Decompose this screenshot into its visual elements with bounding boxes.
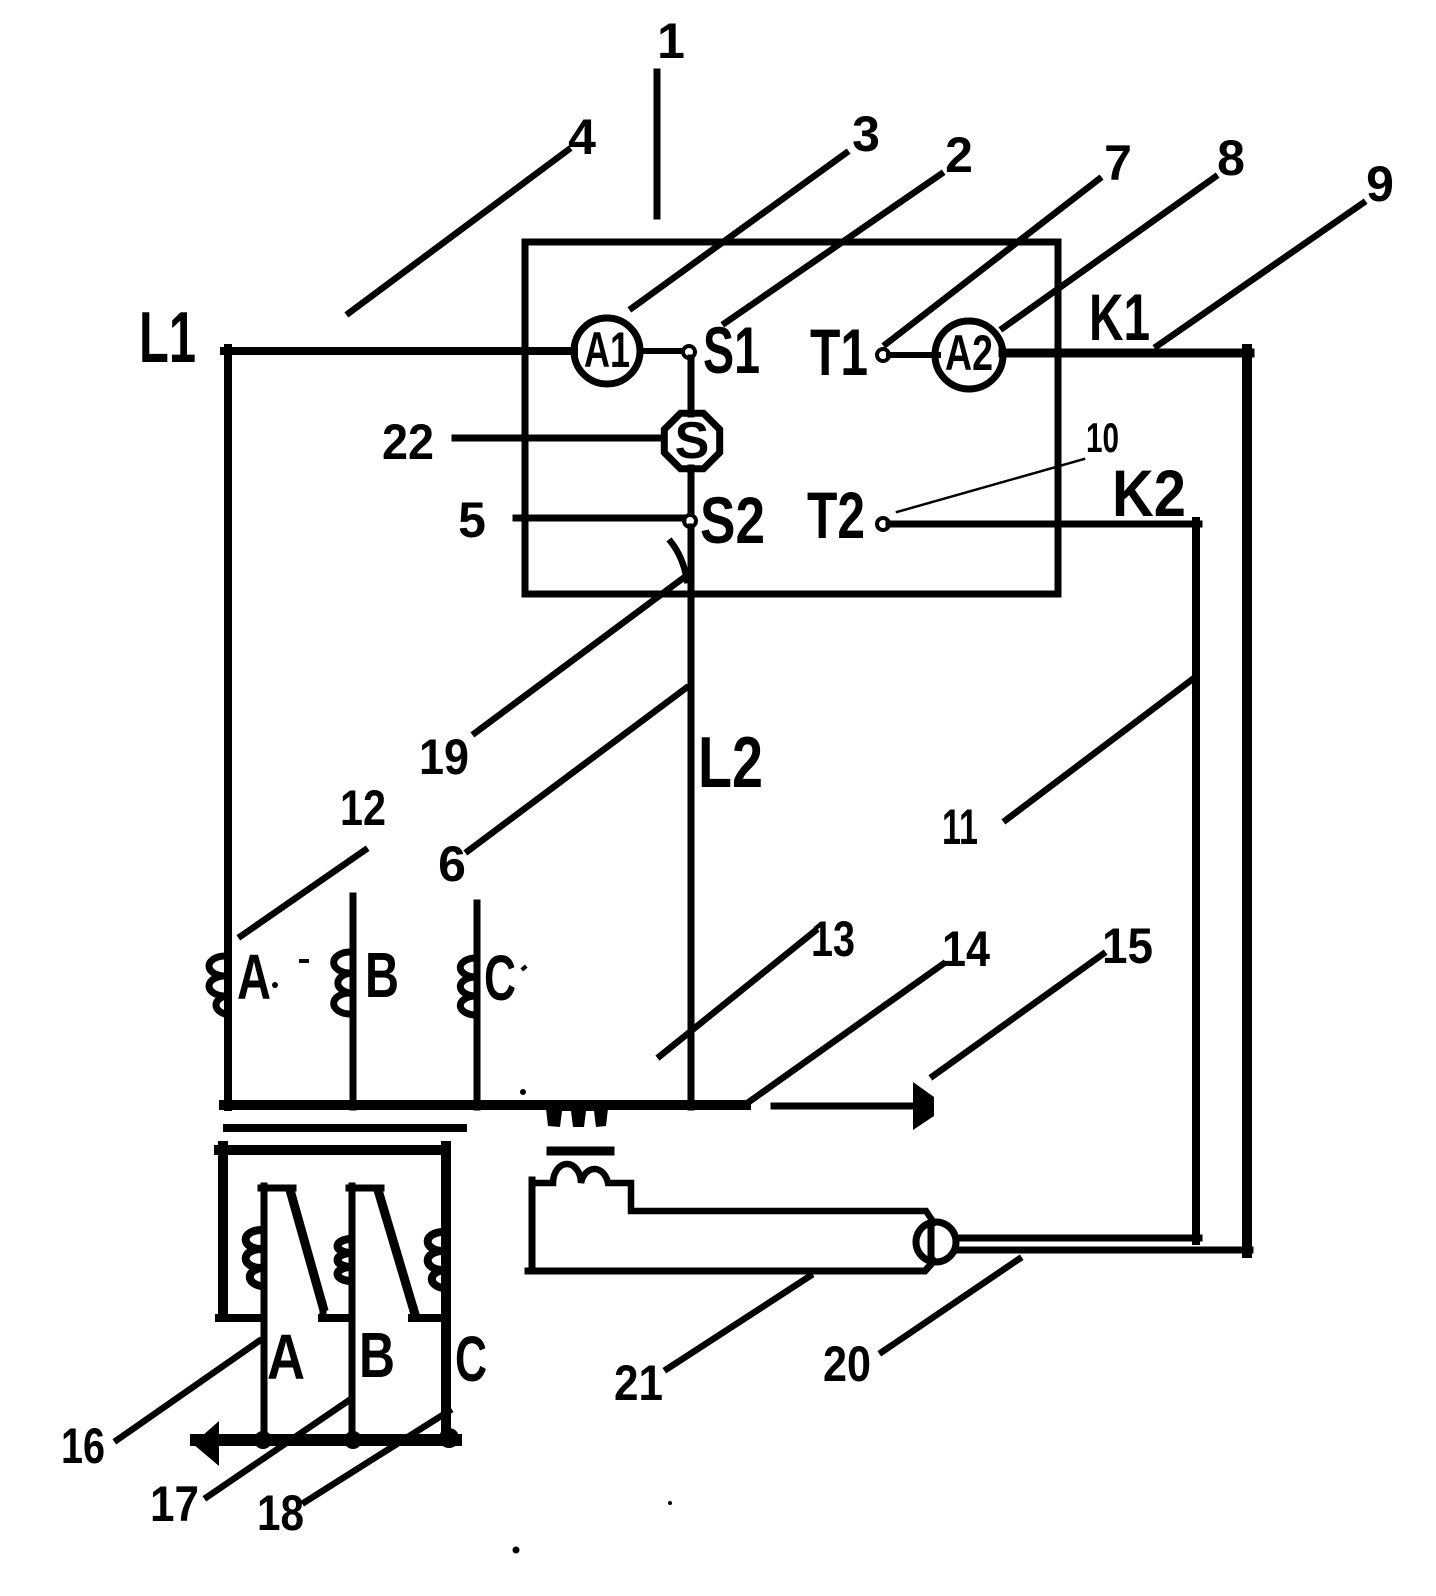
svg-text:S: S	[675, 412, 710, 470]
arrester electrode A	[246, 1186, 323, 1440]
svg-text:K2: K2	[1112, 456, 1186, 530]
wire K1 vertical bus	[1242, 349, 1252, 1253]
leader 15	[933, 954, 1103, 1076]
wire left vertical bus	[224, 348, 232, 1107]
wire A2 to K1 bus	[1003, 349, 1250, 358]
core separator line	[227, 1124, 463, 1132]
terminal T2	[807, 478, 889, 552]
arrester electrode B	[338, 1186, 414, 1440]
svg-text:A: A	[237, 941, 271, 1013]
scan speck above bottom bus	[520, 1089, 526, 1095]
svg-text:21: 21	[614, 1355, 663, 1411]
leader 20	[882, 1259, 1019, 1352]
ground arrow	[193, 1421, 219, 1466]
svg-text:L2: L2	[698, 723, 763, 803]
leader 9	[1157, 203, 1363, 346]
svg-text:12: 12	[340, 780, 386, 836]
svg-text:K1: K1	[1089, 280, 1150, 354]
junction dot A	[254, 1431, 272, 1449]
leader 16	[117, 1341, 259, 1440]
scan speck dash between A and B	[299, 959, 309, 963]
svg-text:5: 5	[458, 492, 486, 548]
svg-text:B: B	[359, 1319, 395, 1391]
svg-text:14: 14	[942, 921, 990, 977]
leader 3	[632, 153, 846, 308]
wire bottom bus	[224, 1100, 746, 1110]
svg-text:22: 22	[382, 414, 434, 470]
svg-text:16: 16	[61, 1418, 105, 1474]
wire lead from label 1	[654, 72, 661, 216]
wire L1 horizontal	[224, 347, 574, 355]
junction dot C	[439, 1428, 459, 1448]
svg-text:15: 15	[1102, 918, 1153, 974]
leader 12	[241, 850, 365, 936]
svg-text:11: 11	[942, 799, 978, 855]
svg-text:S1: S1	[703, 313, 760, 387]
leader 10 thin	[897, 459, 1084, 512]
svg-text:C: C	[484, 942, 516, 1014]
svg-text:C: C	[455, 1323, 487, 1395]
svg-text:8: 8	[1217, 130, 1245, 186]
wire device20 to K2	[956, 1235, 1199, 1242]
svg-text:1: 1	[657, 13, 685, 69]
wire A1 to S1	[640, 348, 683, 354]
scan speck near inductor A label	[272, 982, 278, 988]
ammeter A1	[574, 318, 640, 384]
svg-text:T2: T2	[807, 478, 865, 552]
svg-text:4: 4	[568, 109, 596, 165]
control box U1 outline	[525, 242, 1058, 594]
leader 18	[305, 1411, 449, 1502]
svg-text:T1: T1	[810, 315, 868, 389]
leader 7	[886, 179, 1099, 344]
leader 19 with tick	[475, 576, 686, 733]
transformer T primary teeth	[545, 1100, 609, 1127]
arrester box 16	[219, 1146, 446, 1318]
svg-text:3: 3	[852, 106, 880, 162]
leader 21	[667, 1276, 810, 1369]
svg-text:19: 19	[419, 729, 469, 785]
junction dot B	[344, 1431, 362, 1449]
leader 13	[660, 931, 815, 1056]
transformer T core	[551, 1147, 610, 1156]
leader 17	[207, 1401, 348, 1497]
leader 8	[1003, 177, 1215, 328]
terminal S2	[684, 483, 765, 557]
inductor C	[460, 903, 516, 1107]
svg-text:L1: L1	[139, 298, 196, 378]
scan speck right of 18	[668, 1501, 672, 1505]
svg-text:B: B	[365, 939, 399, 1011]
svg-text:13: 13	[811, 911, 855, 967]
wire arrow 15	[774, 1103, 916, 1110]
svg-text:7: 7	[1104, 135, 1132, 191]
leader 11	[1006, 678, 1194, 820]
svg-text:A1: A1	[584, 322, 630, 378]
transformer T secondary	[528, 1164, 934, 1271]
wire T2 to K2 bus	[889, 521, 1199, 528]
svg-text:18: 18	[257, 1485, 304, 1541]
svg-text:S2: S2	[700, 483, 765, 557]
svg-text:A2: A2	[945, 325, 993, 381]
sensor S octagon	[664, 412, 719, 470]
wire S1 to S	[688, 358, 695, 414]
leader 4	[349, 150, 568, 313]
leader 6	[468, 688, 686, 851]
wire T1 to A2	[889, 352, 938, 358]
svg-text:17: 17	[150, 1476, 199, 1532]
svg-text:20: 20	[823, 1336, 871, 1392]
arrester electrode C on box right edge	[428, 1146, 487, 1440]
wire L2 vertical bus	[688, 527, 695, 1107]
wire S to S2	[688, 468, 695, 516]
terminal T1	[810, 315, 889, 389]
leader 2	[725, 174, 941, 323]
svg-text:6: 6	[438, 836, 466, 892]
ground bus	[196, 1434, 456, 1446]
leader 14	[746, 964, 943, 1104]
leader 22	[455, 435, 663, 442]
scan speck bottom center	[513, 1547, 520, 1554]
indicator device 20	[916, 1222, 956, 1262]
wire device20 to K1	[956, 1247, 1250, 1254]
svg-text:2: 2	[945, 127, 973, 183]
scan speck near C label	[520, 965, 527, 972]
inductor B	[334, 896, 399, 1107]
wire K2 vertical bus	[1192, 521, 1200, 1241]
ammeter A2	[935, 321, 1003, 389]
svg-text:A: A	[267, 1321, 305, 1393]
wire label 5 lead to S2	[516, 515, 683, 522]
inductor A coil on left bus	[209, 941, 271, 1014]
svg-text:10: 10	[1086, 414, 1119, 461]
terminal S1	[683, 313, 760, 387]
svg-text:9: 9	[1366, 156, 1394, 212]
